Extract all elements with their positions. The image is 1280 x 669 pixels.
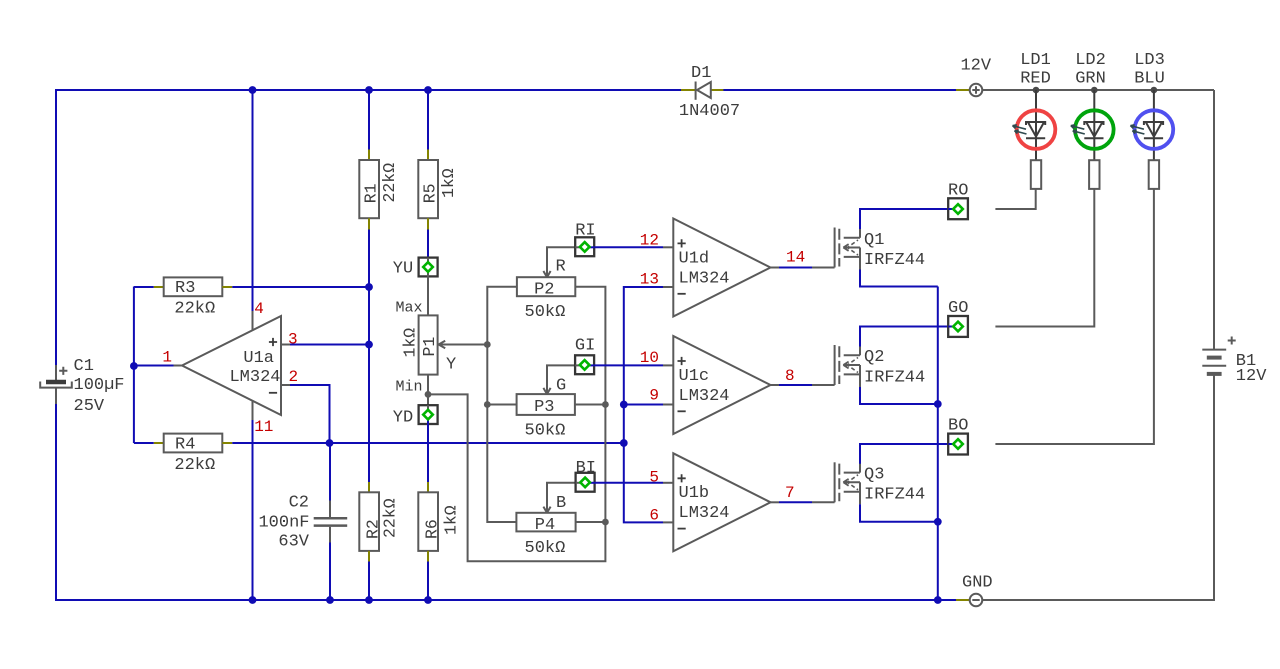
label Y — [446, 355, 456, 374]
svg-text:22kΩ: 22kΩ — [381, 498, 400, 538]
svg-text:LM324: LM324 — [679, 270, 730, 289]
node junction R3/R1 column — [365, 283, 373, 291]
svg-text:BI: BI — [576, 459, 596, 478]
label Q3 IRFZ44 — [864, 486, 925, 505]
svg-text:25V: 25V — [74, 397, 105, 416]
label 12V top — [960, 57, 991, 76]
svg-text:Q3: Q3 — [864, 466, 884, 485]
wire Q1 drain to RO — [860, 209, 948, 229]
label Max — [396, 299, 423, 316]
svg-text:RO: RO — [948, 181, 968, 200]
svg-text:8: 8 — [785, 367, 795, 385]
label B1 — [1236, 352, 1256, 371]
wire pin4 supply column — [252, 90, 254, 330]
label B1 12V — [1236, 367, 1267, 386]
pin number 8 — [785, 367, 795, 385]
potentiometer P3 — [517, 394, 575, 415]
wire Min to frame — [428, 287, 605, 562]
label R3 — [175, 279, 195, 298]
svg-text:YU: YU — [393, 260, 413, 279]
wire top supply rail (left section) — [56, 89, 970, 91]
label Q1 IRFZ44 — [864, 251, 925, 270]
wire YD down to R6 — [427, 424, 429, 482]
svg-text:P1: P1 — [420, 337, 439, 357]
connector GI — [575, 355, 594, 374]
capacitor C1 — [40, 365, 72, 404]
label P2 value — [525, 303, 566, 322]
label RO — [948, 181, 968, 200]
wire GI to pin10 — [594, 364, 663, 366]
label R wiper — [556, 258, 566, 277]
resistor R2 — [359, 482, 379, 562]
svg-text:6: 6 — [649, 507, 659, 525]
wire R5 column top — [427, 90, 429, 160]
wire Min to YD — [427, 394, 429, 405]
connector GO — [948, 316, 968, 337]
label GRN — [1075, 70, 1106, 89]
label Min — [396, 378, 423, 395]
label R4 value — [174, 456, 215, 475]
svg-text:100µF: 100µF — [74, 376, 125, 395]
svg-text:G: G — [556, 377, 566, 396]
label R2 value — [381, 498, 400, 538]
svg-text:GRN: GRN — [1075, 70, 1106, 89]
wire R5 to YU — [427, 230, 429, 259]
svg-text:P3: P3 — [534, 398, 554, 417]
potentiometer P2 — [517, 277, 575, 296]
wire left rail down to C1 — [55, 89, 57, 365]
label U1a LM324 — [229, 368, 280, 387]
svg-text:1kΩ: 1kΩ — [441, 505, 460, 535]
LED LD1 — [1013, 90, 1056, 189]
wire P3 left lead — [487, 404, 516, 406]
wire C2 top — [329, 443, 331, 517]
svg-text:100nF: 100nF — [258, 514, 309, 533]
label LD2 — [1075, 51, 1106, 70]
svg-text:B: B — [556, 494, 566, 513]
svg-text:4: 4 — [254, 300, 264, 318]
svg-text:2: 2 — [289, 368, 299, 386]
battery B1 — [1202, 337, 1235, 374]
label 1N4007 — [679, 102, 740, 121]
wire P4 wiper — [543, 483, 575, 513]
pin number 5 — [649, 469, 659, 487]
svg-text:U1a: U1a — [243, 349, 274, 368]
svg-text:1N4007: 1N4007 — [679, 102, 740, 121]
label R4 — [175, 436, 195, 455]
svg-text:RED: RED — [1020, 70, 1051, 89]
svg-text:Q2: Q2 — [864, 348, 884, 367]
wire Q3 source — [860, 504, 938, 522]
label BLU — [1134, 70, 1165, 89]
wire P4 right lead — [576, 521, 606, 523]
node tap LD3 — [1151, 87, 1158, 94]
svg-text:50kΩ: 50kΩ — [525, 421, 566, 440]
node junction frame right P4 — [602, 519, 609, 526]
pin number 3 — [288, 330, 298, 348]
svg-text:3: 3 — [288, 330, 298, 348]
svg-text:22kΩ: 22kΩ — [174, 456, 215, 475]
label 25V — [74, 397, 105, 416]
label R1 value — [380, 163, 399, 203]
LED LD3 — [1130, 90, 1173, 189]
label P4 value — [525, 539, 566, 558]
svg-text:R6: R6 — [423, 519, 442, 539]
svg-text:LD3: LD3 — [1134, 51, 1165, 70]
svg-text:Y: Y — [446, 355, 456, 374]
svg-text:U1d: U1d — [679, 250, 710, 269]
wire R6 bottom — [427, 562, 429, 601]
label YD — [393, 408, 413, 427]
connector RI — [575, 237, 594, 256]
svg-text:50kΩ: 50kΩ — [525, 303, 566, 322]
wire P3 right lead — [575, 404, 606, 406]
label Q2 IRFZ44 — [864, 368, 925, 387]
label G wiper — [556, 377, 566, 396]
label LD1 — [1020, 51, 1051, 70]
label P1 — [420, 337, 439, 357]
svg-text:U1c: U1c — [679, 367, 710, 386]
svg-text:1kΩ: 1kΩ — [439, 168, 458, 198]
pin number 10 — [640, 349, 659, 367]
wire pin1 output — [134, 365, 174, 367]
pin number 4 — [254, 300, 264, 318]
svg-text:63V: 63V — [278, 533, 309, 552]
label RED — [1020, 70, 1051, 89]
node junction pin2/C2 column — [326, 439, 334, 447]
resistor R3 — [164, 277, 233, 296]
svg-text:GI: GI — [575, 337, 595, 356]
pin number 14 — [786, 249, 805, 267]
capacitor C2 — [314, 518, 348, 542]
svg-text:12V: 12V — [960, 57, 991, 76]
pin number 6 — [649, 507, 659, 525]
connector BI — [576, 473, 595, 492]
op-amp U1a — [174, 316, 291, 415]
label U1b — [679, 484, 710, 503]
node junction pin11 bottom rail — [249, 596, 257, 604]
wire Q2 source — [860, 387, 938, 404]
label Q3 — [864, 466, 884, 485]
node junction feedback pin9 — [620, 401, 628, 409]
wire RI to pin12 — [594, 246, 663, 248]
svg-text:R1: R1 — [362, 183, 381, 203]
svg-text:LD2: LD2 — [1075, 51, 1106, 70]
node tap LD1 — [1033, 87, 1040, 94]
diode D1 — [696, 82, 711, 100]
label U1b LM324 — [679, 504, 730, 523]
svg-text:GO: GO — [948, 299, 968, 318]
svg-text:U1b: U1b — [679, 484, 710, 503]
wire RO to LD1 — [995, 189, 1035, 209]
svg-text:1kΩ: 1kΩ — [401, 328, 420, 358]
svg-text:R3: R3 — [175, 279, 195, 298]
svg-text:22kΩ: 22kΩ — [174, 299, 215, 318]
node tap LD2 — [1091, 87, 1098, 94]
label U1d — [679, 250, 710, 269]
svg-text:P4: P4 — [535, 516, 555, 535]
node junction R2 bottom rail — [365, 596, 373, 604]
connector BO — [948, 434, 968, 455]
label GO — [948, 299, 968, 318]
node junction C2 bottom rail — [326, 596, 334, 604]
wire P3 wiper — [543, 365, 575, 394]
svg-text:LM324: LM324 — [679, 504, 730, 523]
label LD3 — [1134, 51, 1165, 70]
svg-text:IRFZ44: IRFZ44 — [864, 251, 925, 270]
svg-text:Max: Max — [396, 299, 423, 316]
node junction Q2 source — [934, 400, 942, 408]
node junction top rail at R1 — [365, 86, 373, 94]
potentiometer P4 — [516, 513, 575, 532]
wire R4 left — [134, 442, 164, 444]
wire Q1 source — [860, 270, 938, 287]
svg-text:14: 14 — [786, 249, 805, 267]
label YU — [393, 260, 413, 279]
op-amp U1b — [663, 453, 779, 551]
pin number 2 — [289, 368, 299, 386]
power terminal 12V — [970, 84, 983, 97]
wire pin9 — [624, 404, 663, 406]
svg-text:LM324: LM324 — [229, 368, 280, 387]
label P2 — [534, 280, 554, 299]
svg-text:C1: C1 — [74, 357, 94, 376]
label P3 — [534, 398, 554, 417]
wire battery to ground rail — [983, 375, 1215, 600]
label C2 value — [258, 514, 309, 533]
label U1d LM324 — [679, 270, 730, 289]
node junction top rail at pin4 column — [249, 86, 257, 94]
label R2 — [364, 519, 383, 539]
resistor R1 — [359, 160, 379, 230]
svg-text:10: 10 — [640, 349, 659, 367]
wire U1d out to Q1 gate — [779, 267, 835, 269]
wire P2 wiper — [543, 247, 575, 277]
pin number 9 — [649, 387, 659, 405]
wire pin13 feedback vertical — [624, 287, 663, 522]
wire R1 bottom to R2 top — [368, 230, 370, 483]
label 100uF — [74, 376, 125, 395]
label R5 — [421, 183, 440, 203]
wire R1 column top — [368, 90, 370, 160]
svg-text:YD: YD — [393, 408, 413, 427]
connector RO — [948, 198, 968, 219]
resistor R6 — [418, 482, 438, 562]
wire left rail below C1 to bottom — [55, 404, 57, 601]
svg-text:50kΩ: 50kΩ — [525, 539, 566, 558]
svg-text:RI: RI — [575, 222, 595, 241]
wire R3/R4 left vertical — [133, 287, 135, 444]
label R6 value — [441, 505, 460, 535]
node junction P1 wiper / pot frame — [484, 341, 491, 348]
transistor Q3 — [835, 462, 860, 504]
label RI — [575, 222, 595, 241]
svg-text:IRFZ44: IRFZ44 — [864, 368, 925, 387]
svg-text:LM324: LM324 — [679, 387, 730, 406]
wire YU to P1 — [427, 276, 429, 315]
svg-text:P2: P2 — [534, 280, 554, 299]
svg-text:7: 7 — [785, 484, 795, 502]
wire R3 left — [134, 286, 164, 288]
label C1 — [74, 357, 94, 376]
potentiometer P1 — [419, 315, 438, 374]
node junction Q3 source — [934, 518, 942, 526]
node junction source bus bottom rail — [934, 596, 942, 604]
wire R3 to divider — [232, 286, 369, 288]
svg-text:13: 13 — [640, 271, 659, 289]
label BI — [576, 459, 596, 478]
svg-text:GND: GND — [962, 573, 993, 592]
node junction frame left P3 — [484, 401, 491, 408]
transistor Q1 — [835, 228, 860, 270]
svg-text:22kΩ: 22kΩ — [380, 163, 399, 203]
wire feedback horizontal — [232, 442, 624, 444]
wire R2 bottom — [368, 562, 370, 601]
svg-text:BO: BO — [948, 417, 968, 436]
wire pot frame left — [487, 287, 517, 522]
label D1 — [691, 64, 711, 83]
label R6 — [423, 519, 442, 539]
wire Q3 drain to BO — [860, 444, 948, 464]
label C2 voltage — [278, 533, 309, 552]
resistor R4 — [164, 434, 233, 453]
svg-text:D1: D1 — [691, 64, 711, 83]
svg-text:IRFZ44: IRFZ44 — [864, 486, 925, 505]
label Q1 — [864, 231, 884, 250]
label GI — [575, 337, 595, 356]
wire P1 bottom to Min — [427, 375, 429, 395]
label U1c — [679, 367, 710, 386]
node junction feedback YD line — [620, 439, 628, 447]
resistor R5 — [418, 160, 438, 230]
svg-text:9: 9 — [649, 387, 659, 405]
wire BO to LD3 — [995, 189, 1154, 444]
wire right rail down to battery — [1213, 90, 1215, 350]
op-amp U1d — [663, 219, 779, 317]
pin number 7 — [785, 484, 795, 502]
label BO — [948, 417, 968, 436]
wire P1 wiper — [439, 341, 488, 349]
node junction frame right P3 — [602, 401, 609, 408]
pin number 12 — [640, 232, 659, 250]
label P4 — [535, 516, 555, 535]
node junction Min — [425, 391, 432, 398]
label B wiper — [556, 494, 566, 513]
wire pin3 to divider — [290, 344, 369, 346]
svg-text:R5: R5 — [421, 183, 440, 203]
node junction R6 bottom rail — [424, 596, 432, 604]
label R1 — [362, 183, 381, 203]
wire pin2 jog — [290, 385, 330, 443]
svg-text:LD1: LD1 — [1020, 51, 1051, 70]
label GND — [962, 573, 993, 592]
svg-text:1: 1 — [162, 349, 172, 367]
svg-text:R4: R4 — [175, 436, 195, 455]
pin number 11 — [254, 418, 273, 436]
svg-text:R: R — [556, 258, 566, 277]
svg-text:Q1: Q1 — [864, 231, 884, 250]
svg-text:12: 12 — [640, 232, 659, 250]
op-amp U1c — [663, 336, 779, 434]
wire U1c out to Q2 gate — [779, 384, 835, 386]
node junction top rail at R5 — [424, 86, 432, 94]
wire GO to LD2 — [995, 189, 1094, 327]
svg-text:Min: Min — [396, 378, 423, 395]
svg-text:12V: 12V — [1236, 367, 1267, 386]
wire bottom ground rail — [56, 599, 970, 601]
node junction pin1/C1 column — [130, 362, 138, 370]
wire top right supply — [983, 89, 1215, 91]
pin number 13 — [640, 271, 659, 289]
svg-text:C2: C2 — [289, 494, 309, 513]
wire pin11 column — [252, 401, 254, 600]
wire U1b out to Q3 gate — [779, 501, 835, 503]
LED LD2 — [1071, 90, 1114, 189]
svg-text:BLU: BLU — [1134, 70, 1165, 89]
wire Q2 drain to GO — [860, 327, 948, 347]
label R5 value — [439, 168, 458, 198]
node junction pin3/R1 column — [365, 341, 373, 349]
wire BI to pin5 — [595, 482, 663, 484]
svg-text:11: 11 — [254, 418, 273, 436]
svg-text:5: 5 — [649, 469, 659, 487]
connector YD — [419, 405, 438, 424]
pin number 1 — [162, 349, 172, 367]
label U1c LM324 — [679, 387, 730, 406]
wire C2 bottom — [329, 543, 331, 601]
connector YU — [419, 258, 438, 277]
label P1 value — [401, 328, 420, 358]
label R3 value — [174, 299, 215, 318]
wire source bus vertical — [937, 287, 939, 601]
label P3 value — [525, 421, 566, 440]
label Q2 — [864, 348, 884, 367]
transistor Q2 — [835, 345, 860, 387]
ground terminal GND — [970, 594, 983, 607]
label U1a — [243, 349, 274, 368]
label C2 — [289, 494, 309, 513]
